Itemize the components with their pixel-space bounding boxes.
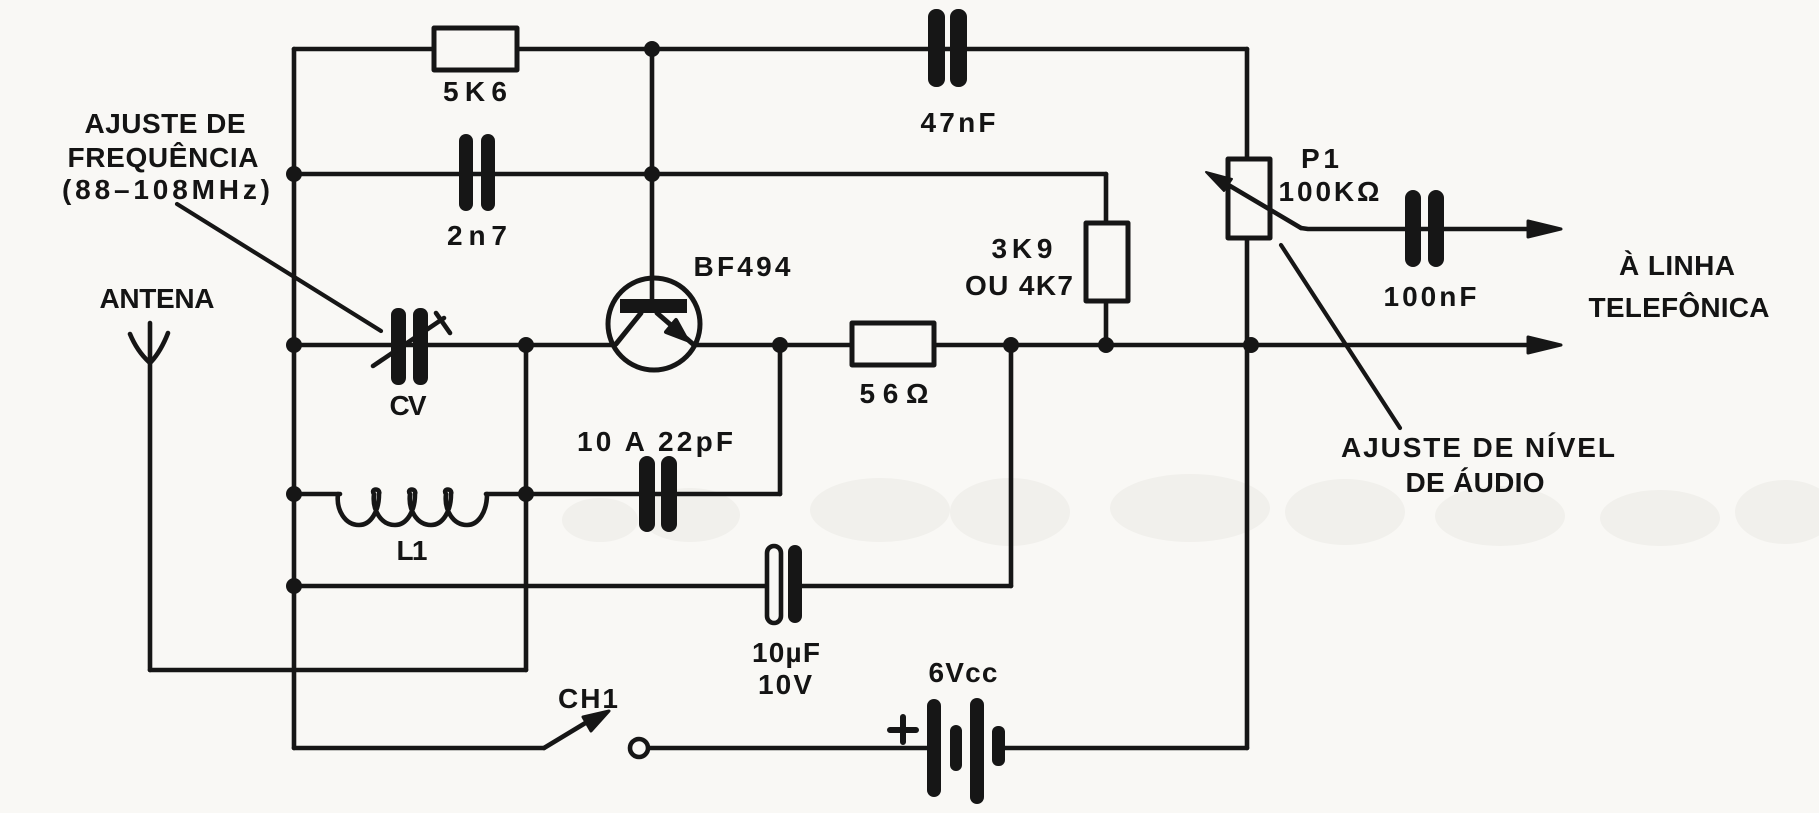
svg-text:P1: P1 xyxy=(1301,143,1339,174)
node: L1 / tank tap junction xyxy=(518,486,534,502)
node: tank tap / middle wire junction xyxy=(518,337,534,353)
node: 56ohm branch / middle wire junction xyxy=(1003,337,1019,353)
svg-text:3K9: 3K9 xyxy=(992,233,1053,264)
wire: left rail xyxy=(292,49,297,748)
node: left rail / bypass wire junction xyxy=(286,578,302,594)
svg-text:OU 4K7: OU 4K7 xyxy=(965,270,1073,301)
svg-text:6Vcc: 6Vcc xyxy=(929,657,998,688)
svg-text:L1: L1 xyxy=(397,535,428,566)
svg-text:AJUSTE DE: AJUSTE DE xyxy=(85,108,246,139)
svg-text:100KΩ: 100KΩ xyxy=(1279,176,1380,207)
svg-text:(88–108MHz): (88–108MHz) xyxy=(62,174,270,205)
svg-text:BF494: BF494 xyxy=(694,251,791,282)
wire: right rail (top corner down to bottom wire) xyxy=(1245,49,1250,748)
wire: P1 wiper output xyxy=(1301,228,1540,229)
capacitor 100nF xyxy=(1405,190,1444,267)
transistor Q1 BF494 xyxy=(608,278,700,370)
capacitor 2n7 xyxy=(459,134,495,211)
node: right rail / middle wire junction xyxy=(1243,337,1259,353)
wire: pointer line from label to CV xyxy=(177,204,381,331)
capacitor CV (variable) xyxy=(391,308,428,385)
switch lever xyxy=(544,719,592,748)
resistor 56ohm xyxy=(852,323,934,365)
svg-text:56Ω: 56Ω xyxy=(860,378,929,409)
wire: 3K9 branch vertical xyxy=(1104,174,1109,345)
wire: collector vertical xyxy=(650,49,655,305)
svg-text:10V: 10V xyxy=(758,669,812,700)
wire: second horizontal (base feed) xyxy=(294,172,1106,177)
svg-text:5K6: 5K6 xyxy=(443,76,507,107)
svg-text:2n7: 2n7 xyxy=(447,220,507,251)
svg-text:100nF: 100nF xyxy=(1384,281,1477,312)
svg-text:DE ÁUDIO: DE ÁUDIO xyxy=(1406,467,1545,498)
wire: emitter to 22pF branch vertical xyxy=(778,345,783,494)
node: left rail / second wire junction xyxy=(286,166,302,182)
wire: top rail with corner to right rail xyxy=(294,47,1247,52)
svg-text:CH1: CH1 xyxy=(558,683,618,714)
capacitor 10 A 22pF xyxy=(639,456,677,532)
node: collector / top wire junction xyxy=(644,41,660,57)
node: collector / second wire junction xyxy=(644,166,660,182)
node: left rail / middle wire junction xyxy=(286,337,302,353)
wire: 56ohm junction vertical xyxy=(1009,345,1014,586)
arrow: audio output xyxy=(1528,221,1561,237)
wire: antenna horizontal to tank xyxy=(150,668,526,673)
wire: antenna lead down xyxy=(148,363,153,670)
wire: switch circle to battery xyxy=(650,746,930,751)
battery B1 6Vcc xyxy=(927,698,1005,804)
svg-text:ANTENA: ANTENA xyxy=(100,283,215,314)
node: emitter branch / middle wire junction xyxy=(772,337,788,353)
wire: bottom left to switch xyxy=(294,746,544,751)
svg-text:FREQUÊNCIA: FREQUÊNCIA xyxy=(68,142,259,173)
potentiometer P1 xyxy=(1228,159,1270,238)
node: left rail / L1 junction xyxy=(286,486,302,502)
svg-text:10µF: 10µF xyxy=(752,637,820,668)
wire: tank tap vertical x=526 xyxy=(524,345,529,670)
wire: middle horizontal (emitter line) xyxy=(294,343,1540,348)
capacitor 47nF xyxy=(928,9,967,87)
CV trimmer arrow xyxy=(373,313,450,366)
antenna symbol xyxy=(130,323,168,363)
svg-text:AJUSTE DE NÍVEL: AJUSTE DE NÍVEL xyxy=(1341,432,1615,463)
svg-text:À LINHA: À LINHA xyxy=(1619,250,1735,281)
svg-text:10 A 22pF: 10 A 22pF xyxy=(577,426,733,457)
switch contact circle xyxy=(630,739,648,757)
P1 wiper arrow xyxy=(1220,180,1301,228)
capacitor 10uF (electrolytic) xyxy=(767,546,781,623)
wire: battery to right rail xyxy=(1003,746,1247,751)
battery plus sign xyxy=(890,717,916,742)
wire: tank circuit horizontal y=494 xyxy=(294,492,780,497)
resistor 5K6 xyxy=(434,28,517,70)
svg-text:TELEFÔNICA: TELEFÔNICA xyxy=(1589,291,1770,323)
wire: bypass horizontal y=586 xyxy=(294,584,1011,589)
resistor 3K9 xyxy=(1086,223,1128,301)
arrow: line output xyxy=(1528,337,1561,353)
pointer line P1 to label xyxy=(1281,245,1400,428)
svg-text:47nF: 47nF xyxy=(921,107,996,138)
node: 3K9 / middle wire junction xyxy=(1098,337,1114,353)
svg-text:CV: CV xyxy=(390,390,427,421)
inductor L1 xyxy=(338,490,487,526)
switch lever arrowhead xyxy=(583,711,609,731)
ghost watermark (bleed-through) xyxy=(562,474,1819,546)
